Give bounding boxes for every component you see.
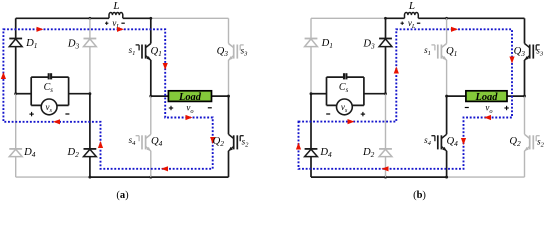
svg-text:Q1: Q1 [151, 46, 162, 58]
svg-text:D1: D1 [25, 38, 37, 50]
svg-text:Q2: Q2 [509, 136, 521, 148]
svg-text:L: L [112, 0, 119, 12]
svg-text:Q2: Q2 [213, 136, 225, 148]
svg-text:Load: Load [474, 92, 498, 103]
svg-text:(a): (a) [116, 190, 129, 201]
svg-text:D1: D1 [321, 38, 333, 50]
svg-text:s3: s3 [241, 45, 249, 57]
svg-text:Q3: Q3 [217, 46, 229, 58]
svg-text:Q4: Q4 [447, 136, 459, 148]
svg-text:D4: D4 [23, 147, 36, 159]
svg-text:D3: D3 [67, 39, 80, 51]
svg-text:Q3: Q3 [514, 46, 526, 58]
svg-text:Q1: Q1 [446, 46, 457, 58]
svg-text:s3: s3 [536, 45, 544, 57]
svg-text:vo: vo [485, 103, 492, 115]
svg-text:s2: s2 [242, 136, 250, 148]
svg-text:vo: vo [186, 103, 193, 115]
svg-text:s4: s4 [129, 135, 137, 147]
svg-text:Q4: Q4 [151, 136, 163, 148]
svg-text:s4: s4 [424, 135, 432, 147]
svg-text:Cs: Cs [44, 82, 54, 94]
svg-text:Load: Load [178, 92, 202, 103]
svg-text:D4: D4 [319, 147, 332, 159]
svg-text:s1: s1 [129, 45, 136, 57]
svg-text:Cs: Cs [339, 82, 349, 94]
svg-text:D2: D2 [67, 147, 80, 159]
svg-text:(b): (b) [413, 190, 426, 201]
svg-text:D2: D2 [362, 147, 375, 159]
svg-text:D3: D3 [362, 39, 375, 51]
svg-text:s2: s2 [537, 136, 545, 148]
svg-text:L: L [408, 0, 415, 12]
svg-text:s1: s1 [424, 45, 431, 57]
